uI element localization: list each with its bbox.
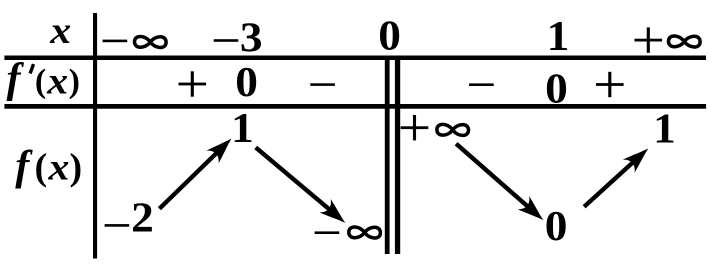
infinity of +inf limit value: [437, 124, 469, 135]
double vertical rule at x=0 (right bar): [395, 57, 400, 255]
svg-text:3: 3: [240, 15, 263, 61]
decreasing arrow 2: [456, 144, 549, 227]
plus of +inf in x row: [635, 27, 663, 52]
infinity of -inf limit value: [349, 227, 381, 238]
f'(x) row label: [7, 56, 80, 102]
double vertical rule at x=0 (left bar): [385, 57, 390, 255]
f(x) row label: [15, 144, 82, 190]
svg-text:1: 1: [547, 13, 570, 59]
svg-text:f: f: [15, 144, 33, 190]
infinity of -inf in x row: [135, 36, 167, 47]
svg-text:0: 0: [545, 66, 568, 112]
decreasing arrow 1: [256, 147, 351, 229]
minus of -2 value: [105, 224, 130, 227]
svg-text:x: x: [48, 145, 70, 188]
svg-text:0: 0: [545, 203, 568, 249]
svg-text:2: 2: [131, 195, 154, 241]
svg-text:): ): [69, 147, 82, 189]
minus sign f' row section 2: [469, 83, 494, 86]
svg-text:x: x: [49, 9, 71, 52]
horizontal rule below f'(x) row: [4, 104, 706, 109]
svg-text:0: 0: [378, 13, 401, 59]
svg-text:(: (: [35, 63, 46, 100]
svg-text:1: 1: [653, 106, 676, 152]
svg-text:1: 1: [231, 105, 254, 151]
main vertical rule after label column: [93, 13, 97, 259]
minus sign f' row section 1: [310, 83, 335, 86]
plus of +inf limit value: [401, 115, 429, 140]
increasing arrow 2: [584, 142, 654, 207]
minus of -inf limit value: [315, 231, 340, 234]
plus sign f' row section 1: [179, 71, 207, 96]
svg-text:0: 0: [235, 59, 258, 105]
svg-text:x: x: [46, 59, 68, 102]
minus of -3 in x row: [214, 39, 239, 42]
minus of -inf in x row: [103, 40, 128, 43]
infinity of +inf in x row: [669, 36, 701, 47]
svg-text:(: (: [34, 147, 47, 189]
svg-text:f: f: [7, 56, 25, 102]
svg-text:): ): [69, 63, 80, 100]
plus sign f' row section 2: [596, 72, 624, 97]
increasing arrow 1: [159, 132, 237, 209]
horizontal rule below x row: [4, 56, 706, 61]
